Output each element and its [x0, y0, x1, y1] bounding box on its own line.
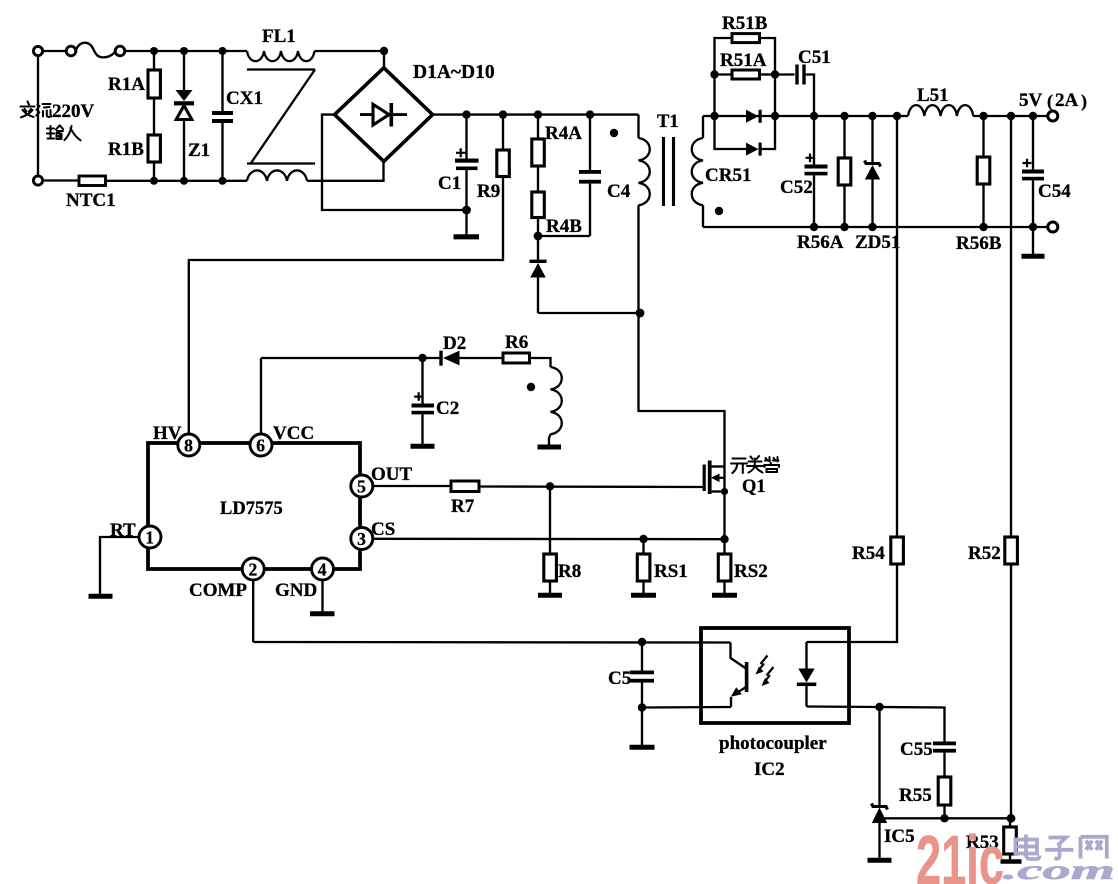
wire: feedback line [884, 817, 1011, 819]
svg-text:R8: R8 [558, 561, 581, 582]
node: R56B bottom [979, 223, 987, 231]
svg-text:R56B: R56B [956, 233, 1002, 254]
capacitor CX1 [212, 111, 233, 123]
node: C5 top [638, 638, 646, 646]
T1 core [664, 137, 674, 206]
node: R56B top [979, 112, 987, 120]
wire: FL1 bottom to bridge bottom [307, 162, 384, 181]
svg-text:D2: D2 [443, 333, 466, 354]
resistor R53 [1004, 818, 1017, 860]
node: C52 bottom [810, 223, 818, 231]
pin 1 [139, 526, 161, 548]
resistor R7 [451, 481, 479, 492]
resistor R55 [938, 777, 951, 818]
ground (IC5) [868, 858, 892, 863]
wire: C5 to ground [641, 708, 643, 746]
protector Z1 [174, 90, 194, 120]
pin 6 [250, 434, 272, 456]
ground (R8) [538, 593, 562, 598]
photocoupler IC2 phototransistor [731, 643, 749, 708]
wire: bottom rail NTC1 to FL1 [106, 180, 248, 182]
node: C54 top [1029, 112, 1037, 120]
wire: R1A top lead [153, 51, 155, 70]
node: diode right [771, 112, 779, 120]
node: C1 top [462, 110, 470, 118]
ground (C2) [411, 444, 435, 449]
aux winding [551, 367, 562, 434]
phase dot T1 secondary [715, 207, 723, 215]
node: C4 top [586, 110, 594, 118]
resistor R52 [1005, 116, 1018, 818]
resistor R51B loop [715, 34, 776, 116]
wire: node to bridge top vertex [383, 51, 385, 68]
svg-text:R51A: R51A [720, 50, 767, 71]
svg-text:3: 3 [357, 529, 366, 549]
regulator IC5 [872, 804, 888, 859]
svg-text:FL1: FL1 [262, 26, 296, 47]
node: R1A top [150, 47, 158, 55]
svg-text:R7: R7 [451, 496, 475, 517]
wire: top rail to fuse [43, 50, 67, 52]
wire: R9 to HV pin8 [189, 177, 503, 435]
wire: Z1 bottom lead [183, 120, 185, 182]
node: ZD51 top [868, 112, 876, 120]
capacitor C51 [775, 65, 814, 117]
capacitor C55 [933, 742, 956, 778]
wire: fuse to FL1 [125, 50, 247, 52]
resistor RS1 [637, 539, 650, 593]
wire: C1 to ground [465, 210, 467, 235]
node: CX1 bottom [219, 177, 227, 185]
node: R1B bottom [150, 177, 158, 185]
wire: VCC line to D2 [261, 357, 440, 359]
ground (C1) [454, 234, 480, 239]
svg-text:LD7575: LD7575 [220, 499, 283, 519]
node: RS1 top [639, 535, 647, 543]
svg-text:2: 2 [249, 559, 258, 579]
wire: CX1 bottom lead [221, 123, 223, 181]
capacitor C2 [412, 358, 435, 444]
wire: bridge right output rail [433, 113, 639, 115]
svg-text:R1B: R1B [108, 139, 144, 160]
diode (snubber) [530, 236, 641, 313]
wire: R1A to R1B [153, 98, 155, 135]
resistor RS2 [718, 539, 731, 593]
node: R4A top [534, 110, 542, 118]
inductor L51 [908, 105, 973, 116]
node: R8 tap [546, 482, 554, 490]
AC input terminal top [33, 46, 42, 55]
svg-text:photocoupler: photocoupler [719, 733, 827, 754]
svg-text:COMP: COMP [189, 580, 247, 601]
fuse F1 element [76, 43, 115, 58]
wire: COMP line to photocoupler [252, 580, 254, 642]
wire: R7 to Q1 gate [479, 485, 703, 488]
photocoupler IC2 box [701, 628, 849, 723]
node: R52 top [1007, 112, 1015, 120]
node: R54 rail tap [893, 112, 901, 120]
node: R56A top [840, 112, 848, 120]
svg-text:L51: L51 [917, 85, 949, 106]
wire: R1B bottom lead [153, 162, 155, 181]
svg-text:IC2: IC2 [754, 759, 785, 780]
IC U1 LD7575 body [148, 443, 360, 569]
svg-text:NTC1: NTC1 [66, 190, 116, 211]
svg-text:RS1: RS1 [654, 561, 688, 582]
resistor R6 [503, 353, 530, 363]
svg-text:R52: R52 [968, 543, 1001, 564]
wire: R4B bottom [537, 218, 539, 237]
resistor R56B [977, 116, 990, 227]
svg-text:IC5: IC5 [884, 826, 915, 847]
node: LED cathode out [875, 703, 883, 711]
svg-text:C5: C5 [608, 668, 631, 689]
wire: COMP horizontal [253, 641, 730, 644]
svg-text:OUT: OUT [371, 464, 413, 485]
node: R56A bottom [840, 223, 848, 231]
svg-text:CX1: CX1 [226, 88, 263, 109]
svg-text:4: 4 [318, 559, 327, 579]
wire: GND pin to ground [321, 580, 323, 612]
wire: RT pin to ground [100, 537, 139, 594]
node: C54 bottom [1029, 223, 1037, 231]
wire: AC bottom to NTC1 [43, 179, 79, 181]
wire: IC5 branch vertical [878, 707, 880, 807]
svg-text:C52: C52 [780, 177, 813, 198]
svg-text:C1: C1 [438, 173, 461, 194]
ground (RS1) [631, 593, 656, 598]
pin 2 [242, 558, 264, 580]
resistor R1A [148, 70, 160, 98]
svg-text:R1A: R1A [108, 74, 145, 95]
svg-text:C4: C4 [607, 181, 631, 202]
node: C5 bottom [638, 703, 646, 711]
svg-text:): ) [1081, 91, 1087, 112]
svg-text:5: 5 [357, 476, 366, 496]
fuse F1 left circle [66, 46, 76, 56]
wire: Z1 top lead [183, 51, 185, 90]
svg-text:R4B: R4B [546, 216, 582, 237]
fuse F1 right circle [115, 46, 125, 56]
pin 4 [312, 558, 334, 580]
svg-text:5V: 5V [1019, 90, 1043, 111]
node: Z1 bottom [180, 177, 188, 185]
svg-text:Z1: Z1 [188, 140, 210, 161]
wire: bridge left to C1 bottom (return) [322, 115, 467, 210]
wire: FL1 top to bridge [315, 50, 385, 52]
svg-text:.com: .com [1003, 855, 1115, 884]
node: snubber junction [534, 232, 543, 241]
wire: R4A to R4B [537, 166, 539, 192]
node: C51 rail [810, 112, 818, 120]
capacitor C54 [1022, 116, 1044, 227]
node: R55 bottom [940, 814, 948, 822]
svg-text:R55: R55 [899, 785, 932, 806]
wire: AC left vertical [37, 56, 39, 176]
svg-text:VCC: VCC [273, 423, 314, 444]
svg-text:220V: 220V [52, 101, 95, 122]
ground (GND pin) [310, 611, 335, 616]
bridge rectifier D1A~D10 [335, 68, 433, 162]
resistor R56A [838, 116, 851, 227]
wire: emitter line [642, 706, 731, 709]
node: primary bottom junction [636, 309, 645, 318]
svg-text:2A: 2A [1055, 90, 1079, 111]
rectifier CR51 top diode [746, 110, 762, 123]
photocoupler IC2 LED [797, 642, 880, 707]
svg-text:R51B: R51B [722, 13, 768, 34]
svg-text:8: 8 [184, 435, 193, 455]
svg-text:C54: C54 [1038, 181, 1071, 202]
thermistor NTC1 [79, 176, 106, 186]
resistor R4A [532, 115, 545, 166]
wire: to C55 branch [880, 707, 945, 742]
svg-text:C55: C55 [900, 739, 933, 760]
rectifier CR51 lower diode branch [715, 116, 776, 156]
ground (RT) [89, 594, 113, 599]
wire: C54 ground stem [1032, 227, 1034, 254]
svg-text:6: 6 [256, 435, 265, 455]
resistor R1B [148, 135, 160, 162]
svg-text:CS: CS [371, 519, 395, 540]
transformer T1 secondary CR51 winding [692, 116, 703, 227]
node: CX1 top [219, 47, 227, 55]
node: bridge top [380, 47, 388, 55]
resistor R54 [807, 116, 904, 642]
zener ZD51 [865, 116, 881, 227]
capacitor C4 [538, 115, 601, 236]
capacitor C52 [805, 116, 828, 227]
wire: R6 to aux winding [530, 358, 551, 367]
label 交流220V (AC 220V) [21, 102, 52, 118]
resistor R8 [544, 486, 557, 593]
photocoupler IC2 light arrows [756, 656, 774, 687]
filter choke FL1 [247, 51, 315, 181]
node: Z1 top [180, 47, 188, 55]
wire: VCC pin 6 riser [260, 358, 262, 434]
wire: secondary top rail [703, 115, 908, 117]
wire: CX1 top lead [221, 51, 223, 111]
pin 8 [178, 434, 200, 456]
ground (aux winding) [538, 445, 562, 450]
output terminal 5V+ [1048, 111, 1058, 121]
transformer T1 primary [639, 115, 650, 313]
node: C1 bottom [462, 206, 471, 215]
svg-text:GND: GND [275, 580, 317, 601]
wire: T1 primary to Q1 drain [639, 313, 725, 467]
resistor R4B [532, 192, 545, 218]
svg-text:1: 1 [145, 527, 154, 547]
node: R9 top [499, 110, 507, 118]
node: R51A left [710, 70, 718, 78]
ground (RS2) [712, 593, 737, 598]
diode D2 [439, 351, 503, 366]
node: ZD51 bottom [868, 223, 876, 231]
node: R51A right [771, 70, 779, 78]
svg-text:RS2: RS2 [734, 561, 768, 582]
phase dot aux winding [527, 383, 535, 391]
label 开关管 (switching tube) [731, 456, 779, 473]
svg-text:R6: R6 [505, 332, 528, 353]
pin 5 [351, 475, 373, 497]
svg-text:T1: T1 [657, 112, 679, 132]
node: R52/R53 junction [1007, 814, 1016, 823]
node: diode left [710, 112, 718, 120]
capacitor C5 [630, 642, 654, 708]
ground (C54) [1022, 254, 1045, 259]
resistor R9 [497, 115, 510, 177]
resistor R51A [715, 70, 776, 79]
svg-text:HV: HV [153, 423, 182, 444]
wire: secondary bottom rail [703, 226, 1048, 228]
svg-text:(: ( [1047, 91, 1053, 112]
svg-text:R56A: R56A [797, 232, 844, 253]
watermark 电子网 [1016, 835, 1107, 860]
svg-text:Q1: Q1 [742, 477, 766, 497]
svg-text:CR51: CR51 [705, 165, 751, 186]
label 输入 (input) [47, 126, 81, 141]
node: C2 tap [418, 354, 426, 362]
wire: OUT pin to R7 [373, 485, 451, 487]
ground (C5) [630, 745, 655, 750]
svg-text:R54: R54 [852, 543, 885, 564]
svg-text:C51: C51 [798, 47, 831, 68]
svg-text:D1A~D10: D1A~D10 [413, 62, 495, 83]
capacitor C1 [455, 115, 479, 210]
wire: CS pin line [373, 538, 725, 541]
wire: aux winding to ground [549, 434, 551, 445]
svg-text:R9: R9 [477, 181, 500, 202]
phase dot T1 primary [610, 129, 618, 137]
output terminal 5V return [1048, 222, 1058, 232]
node: RS2 / Q1 source [720, 535, 728, 543]
pin 3 [351, 528, 373, 550]
ground (R53) [1001, 859, 1022, 864]
svg-text:C2: C2 [436, 398, 459, 419]
AC input terminal bottom [33, 176, 42, 185]
wire: L51 to 5V terminal [973, 115, 1047, 117]
transistor Q1 (MOSFET) [703, 461, 729, 540]
svg-text:R4A: R4A [545, 123, 582, 144]
svg-text:ZD51: ZD51 [855, 232, 900, 253]
svg-text:21ic: 21ic [916, 821, 1004, 884]
